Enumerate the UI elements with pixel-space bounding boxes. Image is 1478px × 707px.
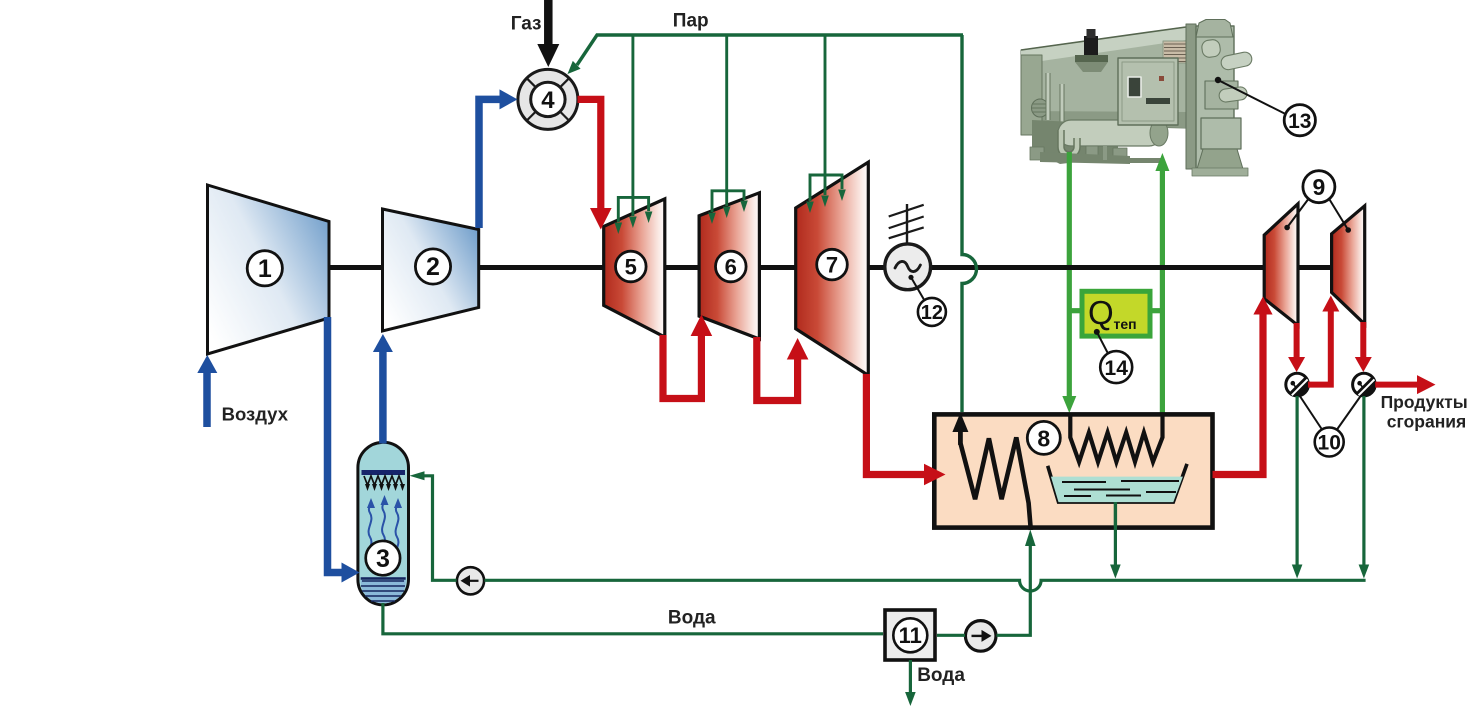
chiller mid equipment dark area [1032,120,1118,164]
chiller right top cap [1196,20,1233,38]
leader lines group [911,80,1361,430]
boiler basin walls [1048,464,1187,502]
pump 2 arrow [972,635,988,637]
svg-text:Продукты: Продукты [1381,392,1468,412]
chiller panel poster [1128,77,1141,97]
condensate return pipe to tank [423,476,457,581]
ref circle 13 [1284,105,1315,136]
generator tilde [895,261,920,271]
grid hatches [889,205,924,239]
gas inlet pipe (black) [544,0,553,48]
basin drain to condensate line [1114,527,1117,570]
tank vapour arrowheads [367,495,402,508]
steam drop to turbine7 [824,35,827,195]
pipe combustor to turbine5 (red) [578,99,601,210]
chiller shell lower shade [1021,111,1186,128]
shaft between turbines 9 [1298,265,1332,270]
svg-text:1: 1 [258,255,272,283]
pipe turbine6 to turbine7 (red) [757,337,798,401]
tank spray jets [364,476,403,485]
chiller U pipe [1061,130,1077,155]
pipe boiler to turbine9a (red) [1213,313,1264,475]
pipe compressor2 to combustor (blue) [479,99,501,228]
admission bracket turbine5 [618,197,648,222]
svg-text:14: 14 [1105,357,1129,380]
svg-text:11: 11 [899,623,922,648]
water treatment box 11 [885,610,935,660]
leader 9 to turbine9a [1287,200,1308,228]
shaft main [329,265,1264,270]
boiler box 8 [934,414,1212,527]
compressor 1 [208,185,330,354]
ref circle 7 [817,249,848,280]
damper valve 10a [1286,373,1309,396]
pump 2 circle [965,621,996,652]
svg-text:Газ: Газ [511,14,542,35]
svg-text:5: 5 [625,255,637,280]
ref circle 2 [415,249,450,284]
air inlet arrow (blue) [203,371,211,427]
absorption chiller photo 13 (stylized) [1021,20,1253,177]
combustor 4 inner circle [531,82,565,116]
chiller louver vent [1163,41,1189,63]
svg-text:3: 3 [376,545,390,573]
leader Q box to 14 [1097,332,1108,354]
turbine 9b [1332,206,1365,324]
ref circle 1 [247,251,282,286]
stub to Q box left [1069,308,1082,313]
admission bracket turbine7 [810,175,842,201]
chiller main shell [1021,27,1186,128]
steam header (dark green) [577,35,963,65]
steam arrow into combustor [568,61,581,74]
pipe return from boiler to chiller (bright green right) [1160,168,1165,414]
svg-text:7: 7 [826,253,838,278]
compressor 2 [383,209,479,331]
grid mast line [906,204,908,245]
chiller bottom shadow [1098,158,1162,163]
chiller motor [1084,36,1098,58]
stub to Q box right [1150,308,1162,313]
exhaust out pipe (red) [1375,382,1419,388]
svg-text:теп: теп [1114,316,1137,332]
svg-text:13: 13 [1288,110,1311,133]
ref circle 9 [1303,171,1335,203]
combustor 4 outer ring [518,69,578,129]
boiler economizer coil [960,424,1030,530]
pipe turbine9a to valve10a (red) [1294,323,1300,359]
chiller drum right end [1150,120,1168,146]
evaporative cooler tank 3 [358,442,409,605]
pipe valve10a to turbine9b (red) [1308,311,1331,385]
ref circle 8 [1027,421,1060,454]
tank drain to water line [383,603,883,634]
condensate return arrow into tank [410,471,425,480]
chiller right end panel [1196,26,1234,168]
gas arrowhead [537,44,559,67]
pipe hot water to Q box (bright green left) [1067,152,1072,400]
turbine 9a [1264,204,1298,326]
pipe turbine7 to boiler (red) [866,374,926,475]
arrow into chiller bottom [1155,153,1169,171]
boiler basin water [1051,477,1183,503]
chiller top edge [1021,27,1186,50]
ref circle 5 [616,251,647,282]
chiller lower right box [1201,118,1241,149]
basin drain inside box [1114,502,1117,527]
svg-text:10: 10 [1318,432,1341,455]
svg-text:8: 8 [1037,425,1050,451]
ref circle 10 [1315,428,1344,457]
svg-text:2: 2 [426,253,440,281]
box11 discharge arrow [909,660,912,698]
chiller pipe stubs [1086,146,1098,161]
tank spray header bar [362,470,406,475]
combustor 4 spokes [527,78,569,120]
ref circle 12 [918,298,946,326]
pipe box11 to pump2 [937,634,965,637]
leader valve10a to 10 [1300,396,1323,430]
svg-text:Воздух: Воздух [222,404,289,425]
admission bracket turbine6 [712,191,744,212]
leader dots [908,275,913,280]
basin water dashes [1062,481,1179,496]
svg-text:Q: Q [1088,294,1114,331]
leader 9 to turbine9b [1330,200,1349,231]
turbine 6 [699,193,759,339]
chiller dot panel [1205,81,1238,109]
pipe pump2 to boiler [997,545,1031,635]
arrow into boiler box top [1062,396,1076,413]
chiller nozzle top [1201,39,1221,58]
pump 1 circle [457,567,484,594]
steam drop to turbine6 [725,35,728,206]
leader chiller to 13 [1218,80,1287,115]
tank vapour wavy arrows [369,500,399,558]
svg-text:Вода: Вода [917,665,965,686]
pipe compressor1 to tank (blue) [328,317,343,573]
pump 1 arrow [463,580,479,582]
steam drop to turbine5 [631,35,634,216]
pipe tank to compressor2 (blue) [379,350,387,444]
chiller thin pipes [1046,73,1051,120]
ref circle 14 [1100,351,1132,383]
steam riser from boiler (dark green with jog over shaft) [962,35,977,412]
condensate main line (dark green) [485,580,1366,591]
boiler heating coil [1070,414,1162,462]
chiller nozzle right upper [1220,51,1253,71]
tank water hatches [361,581,405,601]
svg-text:4: 4 [541,87,555,114]
leader valve10b to 10 [1337,396,1361,430]
svg-text:12: 12 [921,302,943,324]
valve10b drain [1362,396,1365,570]
ref circle 3 [366,541,400,575]
Q heat box 14 [1082,291,1150,336]
chiller right foot [1197,149,1243,169]
chiller left oval vent [1032,99,1049,117]
turbine 7 [796,162,869,375]
svg-text:сгорания: сгорания [1387,412,1466,432]
chiller drum cylinder [1058,120,1162,146]
boiler steam out arrow (black) [952,413,968,433]
ref circle 6 [716,251,747,282]
chiller top highlight band [1021,27,1186,64]
valve10a drain [1295,396,1298,570]
damper valve 10b [1353,373,1376,396]
chiller front panel [1118,58,1178,125]
chiller panel strip [1146,98,1170,104]
pipe turbine9b to valve10b (red) [1360,322,1366,359]
svg-text:6: 6 [725,255,737,280]
svg-text:9: 9 [1313,174,1326,200]
chiller panel frame column [1186,24,1196,169]
pipe turbine5 to turbine6 (red) [663,332,701,399]
turbine 5 [604,199,665,337]
tank water fill [361,577,406,604]
leader generator to 12 [911,277,925,300]
chiller nozzle right mid [1218,86,1248,103]
ref circle 11 [893,618,927,652]
generator circle [885,244,931,290]
svg-text:Пар: Пар [673,11,709,32]
chiller left plate [1021,55,1042,135]
svg-text:Вода: Вода [668,607,716,628]
